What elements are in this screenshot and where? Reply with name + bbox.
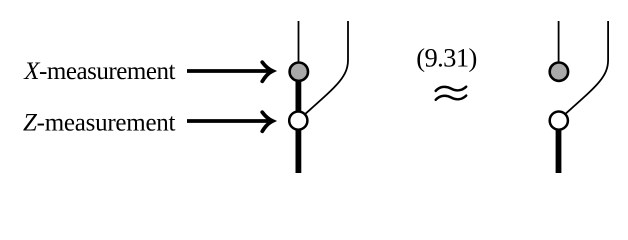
arrow to Z-measurement node xyxy=(187,112,273,131)
label X-measurement xyxy=(23,58,175,85)
wire: left diagram qubit-1 input (thin, top to gray node) xyxy=(298,21,300,64)
svg-text:X-measurement: X-measurement xyxy=(23,58,175,85)
label Z-measurement xyxy=(23,109,176,136)
wire: right diagram qubit-2 bent wire into white node xyxy=(564,21,608,115)
equation number (9.31) xyxy=(416,43,477,73)
node: left Z-measurement (white circle) xyxy=(289,112,307,130)
node: right X-measurement (gray circle) xyxy=(550,62,568,80)
wire: left diagram qubit-2 bent wire into white node xyxy=(304,21,348,115)
node: right Z-measurement (white circle) xyxy=(550,112,568,130)
approx-equals symbol (two tildes) xyxy=(436,87,467,100)
wire: right diagram qubit-1 input (thin, top to gray node) xyxy=(558,21,560,64)
wire: left diagram bold segment (gray node through white node to bottom) xyxy=(295,78,301,173)
arrow to X-measurement node xyxy=(187,62,273,81)
node: left X-measurement (gray circle) xyxy=(290,62,308,80)
wire: right diagram bold output segment (below white node) xyxy=(556,127,562,173)
svg-text:Z-measurement: Z-measurement xyxy=(23,109,176,136)
svg-text:(9.31): (9.31) xyxy=(416,43,477,73)
